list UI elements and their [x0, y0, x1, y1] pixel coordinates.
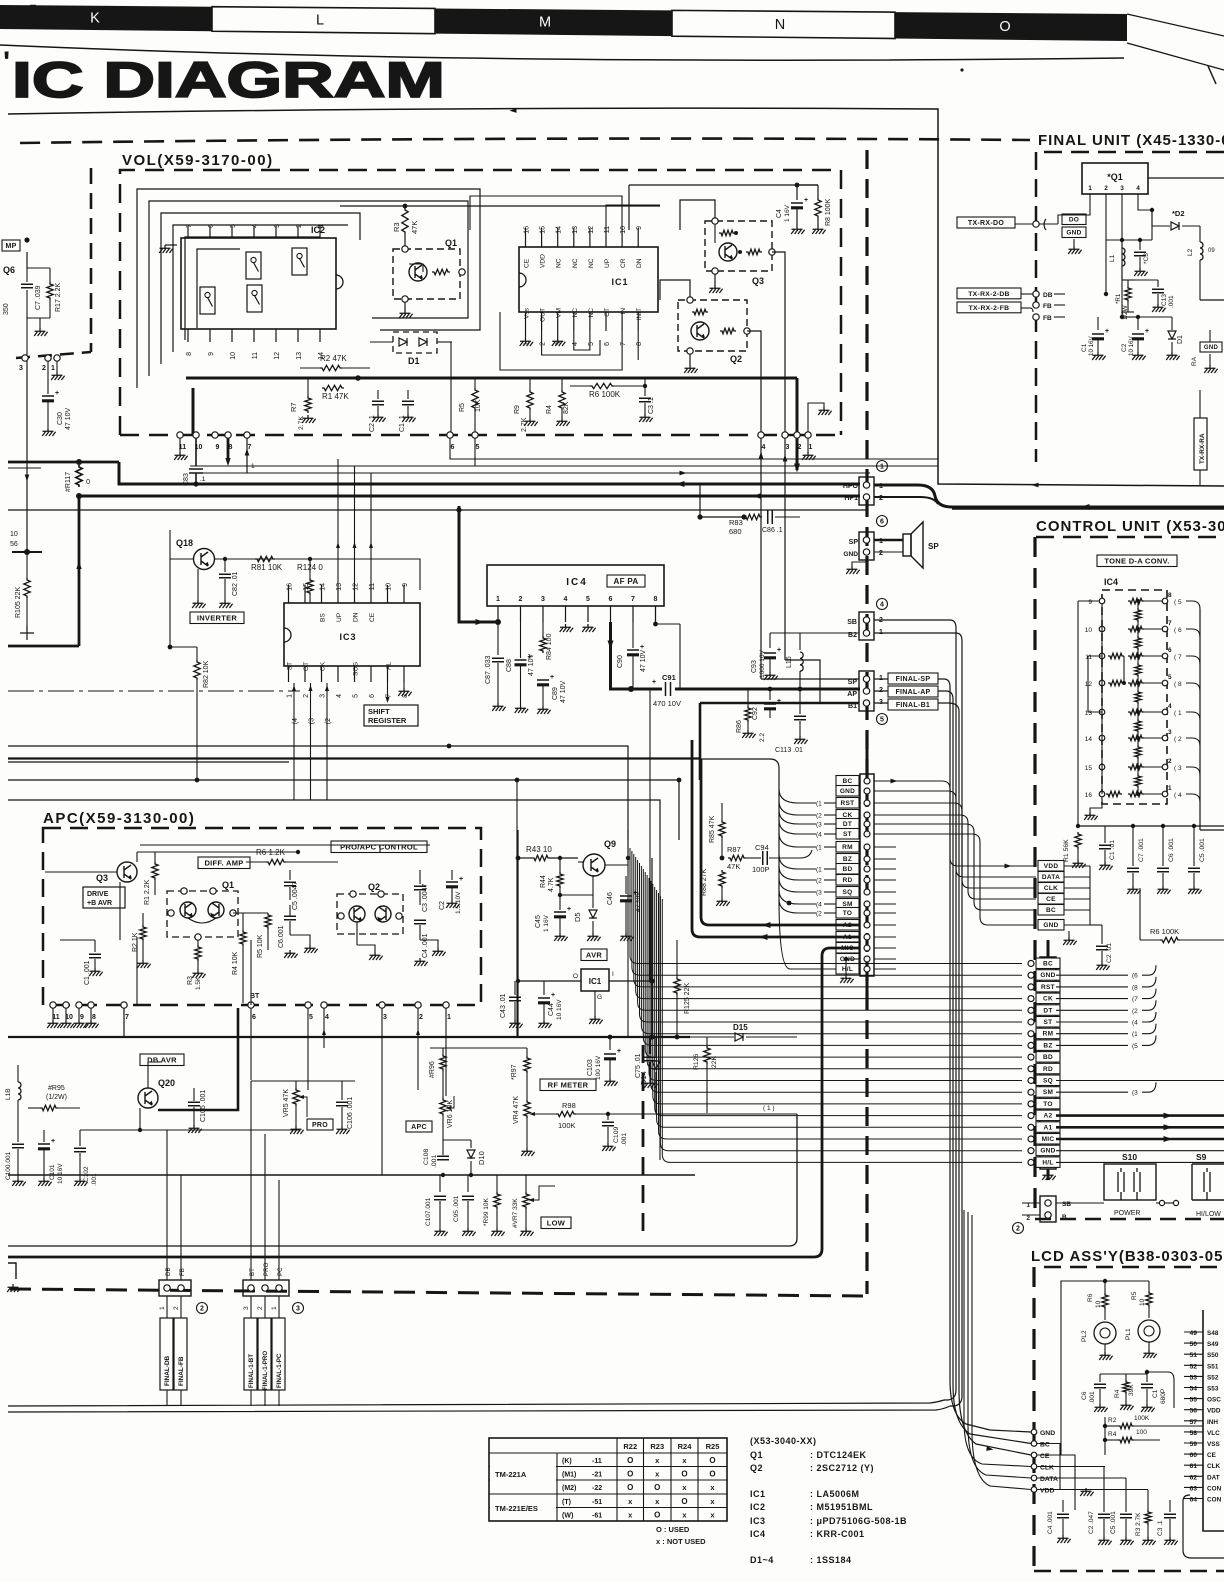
- svg-text:BS: BS: [320, 613, 327, 622]
- svg-text:12: 12: [274, 352, 281, 360]
- capacitor C43 .01: [516, 979, 520, 983]
- svg-text:C2 .047: C2 .047: [1088, 1511, 1095, 1534]
- capacitor C3 .0047: [419, 870, 421, 884]
- svg-text:+: +: [777, 698, 781, 705]
- IC1 pins top: [525, 228, 527, 247]
- svg-text:C1: C1: [1081, 343, 1088, 352]
- svg-text:Q2: Q2: [730, 354, 742, 364]
- svg-text:OUT: OUT: [540, 308, 547, 322]
- svg-text:1: 1: [1088, 185, 1092, 192]
- svg-text:SB: SB: [1062, 1201, 1071, 1208]
- svg-text:CK: CK: [1043, 996, 1053, 1003]
- svg-text:6: 6: [604, 342, 611, 346]
- boxed label TX-RX-2-DB: [957, 288, 1021, 299]
- capacitor C44 10 16V: [543, 981, 545, 995]
- svg-text:3: 3: [786, 444, 790, 451]
- left bottom bracket: [8, 1263, 16, 1279]
- svg-text:1: 1: [51, 365, 55, 372]
- svg-text:GND: GND: [1040, 1430, 1055, 1437]
- wire top rail to control unit: [8, 108, 1224, 486]
- svg-text:SB: SB: [847, 619, 857, 626]
- svg-text:N: N: [775, 17, 785, 33]
- capacitor C2 .1: [377, 390, 379, 399]
- svg-text:+: +: [567, 906, 571, 913]
- svg-text:+: +: [459, 876, 463, 883]
- svg-text:Vss: Vss: [524, 307, 531, 319]
- svg-text:.001: .001: [621, 1133, 628, 1146]
- svg-text:*R1: *R1: [1115, 293, 1122, 304]
- thin rails under VOL: [450, 438, 938, 459]
- svg-text:MP: MP: [5, 243, 16, 250]
- capacitor C7 .039: [26, 268, 28, 282]
- svg-text:3: 3: [1168, 729, 1172, 736]
- capacitor C1 .01 (CONTROL): [1104, 826, 1106, 843]
- svg-text:47 10V: 47 10V: [560, 680, 567, 703]
- capacitor C102 .001: [79, 1130, 81, 1146]
- svg-text:2.2: 2.2: [759, 733, 766, 742]
- svg-text:64: 64: [1189, 1497, 1197, 1504]
- svg-text:(3: (3: [816, 890, 822, 897]
- svg-text:R86: R86: [736, 720, 743, 733]
- svg-text:D1: D1: [408, 356, 420, 366]
- connector J2 pin A2: [1036, 1110, 1060, 1121]
- svg-text:C107.001: C107.001: [425, 1197, 432, 1226]
- coil L2: [1200, 242, 1203, 260]
- svg-text:R84 100: R84 100: [546, 633, 553, 660]
- main bold rail in VOL: [186, 377, 797, 380]
- svg-text:1: 1: [809, 444, 813, 451]
- svg-text:2: 2: [1104, 185, 1108, 192]
- svg-text:C91: C91: [662, 673, 676, 682]
- svg-text:SOS: SOS: [353, 661, 360, 676]
- svg-text:R4: R4: [1108, 1431, 1117, 1438]
- svg-text:+: +: [652, 679, 656, 686]
- IC1 AVR wires: [518, 980, 581, 982]
- svg-text:L: L: [316, 12, 324, 28]
- grounds IC4 pins 4 5: [560, 624, 573, 632]
- connector J2 pin H/L: [1036, 1157, 1060, 1168]
- connector J2 pin TO: [1036, 1098, 1060, 1109]
- connector J2 pin BZ: [1036, 1040, 1060, 1051]
- svg-text:.001: .001: [1168, 295, 1175, 308]
- svg-text:: DTC124EK: : DTC124EK: [810, 1450, 867, 1460]
- regulator IC1 (AVR): [581, 969, 609, 991]
- wires around Q3: [45, 871, 117, 873]
- svg-text:PL1: PL1: [1125, 1328, 1132, 1340]
- IC1 pins bottom: [525, 312, 527, 331]
- bus line y800: [8, 800, 660, 840]
- connector J1 pin A1: [836, 932, 859, 943]
- svg-text:C6: C6: [1081, 1391, 1088, 1400]
- svg-text:(1: (1: [1132, 1031, 1138, 1038]
- svg-text:VDD: VDD: [1040, 1488, 1054, 1495]
- svg-text:CONTROL UNIT (X53-304: CONTROL UNIT (X53-304: [1036, 518, 1224, 535]
- svg-text:O: O: [999, 19, 1010, 35]
- svg-text:R5: R5: [1131, 1291, 1138, 1300]
- svg-text:+: +: [550, 674, 554, 681]
- svg-text:CON: CON: [1207, 1497, 1222, 1504]
- svg-text:DT: DT: [1043, 1007, 1052, 1014]
- resistor R2 1K: [142, 913, 144, 925]
- svg-text:3: 3: [19, 365, 23, 372]
- svg-text:55: 55: [1189, 1397, 1197, 1404]
- diode D14: [655, 1037, 657, 1060]
- IC3 upward pin wires: [337, 459, 339, 585]
- svg-text:(2: (2: [816, 878, 822, 885]
- svg-text:3: 3: [383, 1014, 387, 1021]
- coil L1: [1122, 248, 1125, 266]
- svg-text:(W): (W): [562, 1512, 573, 1519]
- svg-text:IC4: IC4: [750, 1529, 766, 1539]
- svg-text:NC: NC: [588, 308, 595, 318]
- coil L18: [18, 1082, 21, 1100]
- svg-text:C1 .001: C1 .001: [84, 960, 91, 985]
- connector J2 pin RST: [1036, 981, 1060, 992]
- svg-text:-51: -51: [592, 1499, 602, 1506]
- svg-text:R1 47K: R1 47K: [322, 392, 349, 401]
- svg-text:C94: C94: [755, 843, 769, 852]
- wires SB B2 to bundle: [874, 620, 956, 1400]
- svg-text:C1 .01: C1 .01: [1109, 840, 1116, 860]
- circled 2 near S8: [1013, 1223, 1024, 1234]
- svg-text:( 5: ( 5: [1174, 599, 1182, 606]
- svg-text:15: 15: [1085, 765, 1093, 772]
- svg-text:4: 4: [252, 224, 259, 228]
- connector J2 pin MIC: [1036, 1134, 1060, 1145]
- svg-text:C1: C1: [1152, 1389, 1159, 1398]
- capacitor C3 .1: [644, 378, 646, 396]
- capacitor C89 47 10V: [537, 680, 549, 686]
- svg-text:1 16V: 1 16V: [543, 914, 550, 932]
- connector J1 housing: [860, 774, 874, 976]
- svg-text:TX-RX-DO: TX-RX-DO: [968, 220, 1004, 227]
- svg-text:-21: -21: [592, 1471, 602, 1478]
- svg-text:4: 4: [325, 1014, 329, 1021]
- connector J2 pin RM: [1036, 1028, 1060, 1039]
- LCD feeder bundle down: [949, 687, 951, 1410]
- svg-text:2: 2: [1168, 758, 1172, 765]
- svg-text:BC: BC: [1046, 907, 1056, 914]
- ground at IC2 pin7 area: [165, 244, 177, 246]
- svg-text:R4: R4: [546, 405, 553, 414]
- capacitor C82 .01: [223, 557, 227, 561]
- connector J1 pin CK: [836, 810, 859, 821]
- boxed label RF METER: [540, 1079, 596, 1091]
- capacitor C13 .001: [1157, 280, 1159, 287]
- svg-text:R87: R87: [727, 845, 741, 854]
- svg-text:A2: A2: [1044, 1113, 1053, 1120]
- svg-text:3: 3: [243, 1306, 250, 1310]
- svg-text:53: 53: [1189, 1374, 1197, 1381]
- IC4 ladder internal wiring: [1101, 604, 1103, 794]
- dash-dot bus: [8, 690, 300, 692]
- svg-text:VR5 47K: VR5 47K: [283, 1089, 290, 1117]
- svg-text:680: 680: [729, 527, 742, 536]
- svg-text:R2: R2: [1108, 1417, 1117, 1424]
- pot VR5 47K: [251, 1080, 355, 1082]
- svg-text:IC1: IC1: [750, 1489, 766, 1499]
- resistor R5 10K (VOL): [472, 388, 478, 410]
- svg-text:11: 11: [369, 583, 376, 590]
- connector FINAL-DB FB: [159, 1280, 191, 1296]
- resistor R44 4.7K: [559, 858, 561, 872]
- LCD loop curve: [1183, 1495, 1224, 1558]
- svg-text:Q1: Q1: [445, 238, 457, 248]
- svg-text:6: 6: [451, 444, 455, 451]
- svg-text:CK: CK: [320, 661, 327, 671]
- svg-text:58: 58: [1189, 1430, 1197, 1437]
- svg-text:HI/LOW: HI/LOW: [1196, 1211, 1221, 1218]
- svg-text:REGISTER: REGISTER: [368, 716, 407, 725]
- svg-text:2: 2: [42, 365, 46, 372]
- svg-text:10: 10: [620, 226, 627, 234]
- svg-text:O : USED: O : USED: [656, 1525, 690, 1534]
- svg-text:100K: 100K: [1134, 1415, 1150, 1422]
- svg-text:L1B: L1B: [5, 1088, 12, 1100]
- svg-text:( 2: ( 2: [1174, 736, 1182, 743]
- boxed label MP: [2, 240, 20, 251]
- svg-text:R25: R25: [706, 1442, 720, 1451]
- svg-text:7: 7: [248, 444, 252, 451]
- capacitor C4 1 16V: [796, 185, 798, 200]
- svg-text:FINAL-SP: FINAL-SP: [896, 676, 931, 683]
- svg-text:INH: INH: [1207, 1419, 1218, 1426]
- svg-text:3: 3: [541, 596, 545, 603]
- svg-text:12: 12: [588, 226, 595, 234]
- svg-text:NC: NC: [588, 258, 595, 268]
- svg-text:6: 6: [208, 224, 215, 228]
- svg-text:10: 10: [1085, 627, 1093, 634]
- svg-text:10: 10: [230, 352, 237, 360]
- svg-text:C4 .001: C4 .001: [422, 933, 429, 958]
- svg-text:2: 2: [257, 1306, 264, 1310]
- svg-text:INVERTER: INVERTER: [197, 614, 238, 623]
- svg-text:R1 2.2K: R1 2.2K: [144, 879, 151, 905]
- svg-text:DN: DN: [636, 258, 643, 268]
- arrows under VOL pins 4 3: [760, 438, 762, 679]
- svg-text:+: +: [551, 992, 555, 999]
- capacitor C105 .001: [193, 1100, 195, 1110]
- svg-text:SM: SM: [1043, 1089, 1053, 1096]
- label FINAL-FB: [174, 1318, 187, 1390]
- svg-text:O: O: [627, 1469, 633, 1478]
- boxed label TX-RX-2-FB: [957, 302, 1021, 313]
- bus line y762: [8, 761, 289, 763]
- IC3 pin7 wire: [387, 682, 389, 700]
- bold wire A1: [692, 740, 860, 937]
- svg-text:RST: RST: [841, 800, 855, 807]
- resistor R7 2.7K: [307, 378, 309, 396]
- svg-text:(M2): (M2): [562, 1485, 576, 1492]
- wire IC4 pin8: [655, 606, 657, 624]
- svg-text:: KRR-C001: : KRR-C001: [810, 1529, 865, 1539]
- circled 5: [877, 714, 888, 725]
- svg-text:IC4: IC4: [566, 577, 588, 588]
- resistor R5 10K (APC): [233, 912, 268, 914]
- svg-text:47 10V: 47 10V: [65, 407, 72, 430]
- FINAL UNIT dashed boundary: [1035, 152, 1038, 462]
- capacitor C6 .001: [284, 916, 296, 919]
- svg-text:C3 .1: C3 .1: [648, 397, 655, 414]
- IC3 shift register: [284, 603, 420, 666]
- svg-text:47K: 47K: [410, 221, 419, 234]
- svg-text:470 10V: 470 10V: [653, 699, 681, 708]
- bold left riser: [78, 496, 81, 646]
- connector J1 pin A2: [836, 920, 859, 931]
- svg-text:AP: AP: [847, 691, 857, 698]
- svg-text:R1 56K: R1 56K: [1063, 839, 1070, 862]
- svg-text:C82 .01: C82 .01: [232, 571, 239, 596]
- capacitor C109 .001: [607, 1114, 609, 1120]
- svg-text:S50: S50: [1207, 1352, 1219, 1359]
- svg-text:Q20: Q20: [158, 1078, 175, 1088]
- vertical bus pair to LCD: [8, 1400, 944, 1406]
- svg-text:(X53-3040-XX): (X53-3040-XX): [750, 1436, 817, 1446]
- resistor R1 56K (CONTROL): [1077, 826, 1079, 838]
- left unit boundary dashed: [90, 168, 93, 352]
- capacitor C108 .001: [437, 1156, 449, 1159]
- resistor R4 39K (LCD): [1125, 1374, 1127, 1380]
- svg-text:FINAL-1-BT: FINAL-1-BT: [248, 1354, 255, 1388]
- svg-text:3: 3: [274, 224, 281, 228]
- svg-text:O: O: [681, 1469, 687, 1478]
- svg-text:PL2: PL2: [1081, 1330, 1088, 1342]
- svg-text:C103: C103: [587, 1059, 594, 1076]
- svg-text:C95 .001: C95 .001: [453, 1195, 460, 1222]
- svg-text:IC1: IC1: [611, 277, 628, 287]
- svg-text:14: 14: [320, 583, 327, 591]
- svg-text:S10: S10: [1122, 1152, 1137, 1162]
- ground mid left: [27, 317, 50, 319]
- connector J2 pin A1: [1036, 1122, 1060, 1133]
- svg-text:C4: C4: [776, 209, 783, 218]
- mid vertical wires: [516, 780, 518, 1037]
- svg-text:SQ: SQ: [1043, 1078, 1053, 1085]
- connector J1 pin DT: [836, 819, 859, 830]
- boxed label APC: [406, 1121, 432, 1132]
- boxed label DIFF AMP: [198, 857, 250, 869]
- svg-text:C113 .01: C113 .01: [775, 747, 803, 754]
- svg-text:2: 2: [519, 596, 523, 603]
- svg-text:C45: C45: [535, 915, 542, 928]
- label FINAL-DB: [160, 1318, 173, 1390]
- svg-text:FB: FB: [1043, 315, 1052, 322]
- resistor R105 22K: [26, 552, 28, 578]
- capacitor C46 47 10V: [625, 865, 627, 890]
- svg-text:56: 56: [1189, 1408, 1197, 1415]
- pot VR4 47K: [526, 1073, 528, 1100]
- capacitor C3 .1 (LCD): [1169, 1500, 1171, 1512]
- svg-text:C89: C89: [552, 687, 559, 700]
- svg-text:C100.001: C100.001: [5, 1151, 12, 1180]
- connector J1 pin MIC: [836, 943, 859, 954]
- svg-text:*Q1: *Q1: [1107, 172, 1123, 182]
- IC1 wiring loops: [542, 331, 600, 355]
- svg-text:63: 63: [1189, 1485, 1197, 1492]
- wires at BT PRO PC connector: [250, 1081, 252, 1280]
- capacitor C83: [195, 438, 197, 466]
- svg-text:C5 .001: C5 .001: [1199, 838, 1206, 862]
- svg-text:1/2W: 1/2W: [1122, 305, 1129, 320]
- grounds in APC lower: [290, 935, 310, 945]
- circled 1: [877, 461, 888, 472]
- svg-text:9: 9: [636, 226, 643, 230]
- svg-text:8: 8: [92, 1014, 96, 1021]
- shift register label: [364, 705, 418, 726]
- FINAL-B1 label: [888, 699, 938, 710]
- capacitor C5 .001 (LCD): [1125, 1478, 1127, 1512]
- svg-text:LCD ASS'Y(B38-0303-05: LCD ASS'Y(B38-0303-05: [1031, 1248, 1223, 1265]
- svg-text:4.7K: 4.7K: [548, 877, 555, 892]
- svg-text:12: 12: [353, 583, 360, 591]
- bold audio output wire: [611, 622, 663, 689]
- boxed label TONE D-A CONV: [1097, 555, 1177, 567]
- lamp feed rail: [1061, 1281, 1149, 1455]
- connector J2 pin DT: [1036, 1005, 1060, 1016]
- svg-text:*D2: *D2: [1172, 209, 1185, 218]
- svg-text:6: 6: [609, 596, 613, 603]
- svg-text:+: +: [55, 390, 59, 397]
- svg-text:1.5 10V: 1.5 10V: [455, 891, 462, 914]
- label FINAL-1-PC: [272, 1318, 285, 1390]
- svg-text:ST: ST: [843, 831, 852, 838]
- svg-text:S53: S53: [1207, 1386, 1219, 1393]
- svg-text:(4: (4: [1132, 1020, 1138, 1027]
- svg-text:6: 6: [369, 694, 376, 698]
- svg-text:60: 60: [1189, 1452, 1197, 1459]
- boxed label PRO/APC CONTROL: [331, 841, 427, 853]
- svg-text:DATA: DATA: [1040, 1476, 1058, 1483]
- svg-text:UP: UP: [604, 258, 611, 268]
- svg-text:C101: C101: [49, 1164, 56, 1180]
- svg-text:APC(X59-3130-00): APC(X59-3130-00): [43, 810, 195, 827]
- svg-text:O: O: [654, 1483, 660, 1492]
- svg-text:1: 1: [447, 1014, 451, 1021]
- svg-text:C6.001: C6.001: [278, 925, 285, 948]
- svg-text:1: 1: [287, 694, 294, 698]
- svg-text:R5 10K: R5 10K: [257, 934, 264, 958]
- svg-text:O: O: [709, 1456, 715, 1465]
- capacitor C7 .001: [1132, 826, 1134, 866]
- svg-text:CLK: CLK: [1044, 885, 1058, 892]
- svg-text:SP: SP: [849, 539, 859, 546]
- svg-text:R6 100K: R6 100K: [589, 390, 621, 399]
- bold wire rail to pin2: [796, 378, 799, 432]
- IC3 pins bottom: [288, 666, 290, 682]
- svg-text:: LA5006M: : LA5006M: [810, 1489, 860, 1499]
- svg-text:100P: 100P: [752, 865, 770, 874]
- svg-text:5: 5: [1168, 674, 1172, 681]
- connector J2 pin GND: [1036, 1145, 1060, 1156]
- svg-text:5: 5: [880, 717, 884, 724]
- svg-text:2: 2: [200, 1306, 204, 1313]
- J2 right side wires: [1056, 974, 1128, 976]
- svg-text:-61: -61: [592, 1512, 602, 1519]
- svg-text:Q3: Q3: [752, 276, 764, 286]
- zener diode D5: [560, 894, 593, 896]
- svg-text:C2 .1: C2 .1: [369, 415, 376, 432]
- svg-text:59: 59: [1189, 1441, 1197, 1448]
- svg-text:UP: UP: [336, 612, 343, 622]
- capacitor C2 .047: [1103, 1466, 1105, 1512]
- svg-text:R23: R23: [650, 1442, 664, 1451]
- page edge curve under band: [0, 45, 1124, 60]
- ground at VOL pin 11: [179, 438, 181, 452]
- svg-text:R126: R126: [693, 1054, 700, 1070]
- svg-text:R88 27K: R88 27K: [701, 868, 708, 896]
- wires J1 to control unit labels: [896, 781, 1036, 866]
- svg-text:OT: OT: [303, 662, 310, 671]
